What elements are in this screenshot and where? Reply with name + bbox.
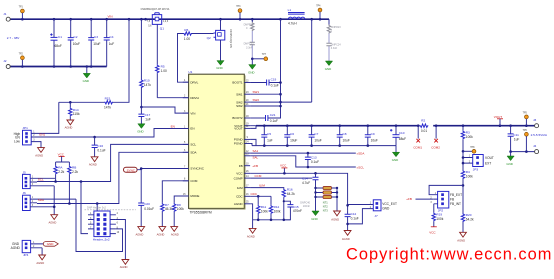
wire PGND rail (252, 145, 396, 147)
capacitor C8 (337, 126, 350, 146)
connector Header 5x2 (85, 206, 136, 241)
wire VOUT rail (256, 125, 535, 127)
svg-text:SAL: SAL (253, 156, 259, 160)
svg-text:J5: J5 (23, 170, 27, 174)
resistor R21 DNP snubber SW1 (244, 19, 254, 31)
capacitor C9 (365, 126, 378, 146)
pin stubs U1 left (183, 82, 189, 196)
svg-text:R4: R4 (466, 170, 470, 174)
pin numbers U1 right (246, 80, 249, 203)
resistor R4 feedback bottom (461, 170, 473, 213)
svg-text:COM: COM (190, 179, 198, 183)
ground SW2 snubber (325, 61, 333, 71)
ground AGND R8 (171, 227, 179, 237)
capacitor C24 DNP snubber SW2 (326, 34, 341, 62)
power label VCC pullups (56, 152, 70, 165)
pin names U1 left (190, 80, 204, 198)
capacitor C4 (104, 19, 115, 66)
svg-text:1uF: 1uF (514, 137, 520, 141)
node SW1 snubber junction (251, 58, 254, 61)
wire SW1 pin row (250, 93, 280, 95)
op-amp U1 main IC body (188, 70, 245, 214)
wire SW2b pin row (250, 105, 280, 107)
wire FB to JP2 (429, 185, 463, 194)
net tie NT1 (314, 186, 338, 211)
inductor L1 (288, 8, 305, 25)
wire divider to JP1 pin1 (37, 102, 59, 133)
ground C11 (506, 152, 514, 166)
capacitor C6 (284, 126, 297, 146)
svg-text:DNPC24: DNPC24 (331, 43, 341, 46)
svg-text:J3: J3 (533, 118, 537, 122)
net flag SYNC oval (124, 167, 138, 172)
ground AGND C20 (136, 227, 145, 237)
svg-text:J2: J2 (3, 59, 7, 63)
ground C17 (137, 124, 145, 134)
capacitor C14 comp (250, 172, 318, 211)
wire Q2 drain (220, 19, 222, 30)
svg-text:C17: C17 (145, 113, 151, 117)
svg-text:64.2k: 64.2k (287, 192, 295, 196)
svg-text:JP3: JP3 (473, 167, 479, 171)
capacitor C13 (305, 152, 319, 169)
svg-text:DRVL: DRVL (190, 80, 198, 84)
svg-text:TP3: TP3 (236, 6, 241, 8)
power label VCC row (280, 163, 287, 174)
svg-text:100nF: 100nF (303, 205, 311, 208)
svg-text:147k: 147k (104, 106, 111, 110)
svg-text:VIN: VIN (108, 15, 113, 19)
svg-text:2.5-5.5V/2A: 2.5-5.5V/2A (531, 133, 548, 137)
power label VOUT (494, 115, 503, 126)
svg-text:R3: R3 (466, 130, 470, 134)
svg-text:GND: GND (137, 130, 143, 134)
svg-text:C19: C19 (271, 78, 277, 82)
node R14 tap (69, 101, 72, 104)
wire AGND pin rail (250, 204, 290, 229)
svg-text:NT2: NT2 (323, 204, 328, 208)
svg-text:2.2k: 2.2k (58, 170, 64, 174)
svg-text:TP4: TP4 (316, 6, 321, 8)
wire SW2 vertical (311, 19, 313, 102)
svg-text:GND: GND (248, 70, 254, 74)
svg-text:10uF: 10uF (343, 138, 350, 142)
svg-text:Copyright:www.eccn.com: Copyright:www.eccn.com (346, 246, 552, 264)
wire EN net (37, 129, 189, 138)
svg-text:TP7: TP7 (262, 54, 267, 56)
svg-text:C8: C8 (343, 132, 347, 136)
wire VCC row (250, 173, 348, 210)
svg-text:VCC: VCC (280, 163, 287, 167)
svg-text:NT3: NT3 (323, 208, 328, 212)
svg-text:AGND: AGND (342, 237, 350, 241)
svg-text:C13: C13 (311, 155, 317, 159)
svg-text:2.7 - 38V: 2.7 - 38V (7, 36, 20, 40)
node VIN rail junctions (21, 18, 321, 21)
svg-text:0.1uF: 0.1uF (270, 119, 278, 123)
svg-text:«SDA: «SDA (357, 151, 365, 155)
svg-text:100k: 100k (436, 217, 443, 221)
svg-text:AGND: AGND (11, 246, 21, 250)
pin names U1 right (232, 81, 243, 206)
svg-text:FB: FB (239, 164, 243, 168)
svg-text:AGND: AGND (49, 220, 57, 224)
svg-text:JP4: JP4 (23, 253, 29, 257)
connector JP3 vout ext (462, 151, 494, 171)
svg-text:«SCL: «SCL (357, 165, 365, 169)
svg-text:CCM: CCM (255, 174, 262, 178)
svg-text:J1: J1 (3, 12, 7, 16)
svg-text:R6: R6 (184, 28, 188, 32)
svg-text:CDC: CDC (236, 195, 243, 199)
svg-text:SYNC/NC: SYNC/NC (190, 167, 204, 171)
ground AGND header (120, 260, 129, 270)
svg-text:SDA: SDA (190, 151, 196, 155)
svg-text:0.01: 0.01 (421, 129, 427, 133)
svg-text:3.3nF: 3.3nF (246, 47, 253, 50)
node SW1 taps (279, 81, 282, 107)
power label VCC R19 (429, 227, 437, 235)
node J6 pin3 tie (53, 206, 56, 209)
svg-text:R5: R5 (161, 65, 165, 69)
svg-text:TP5: TP5 (523, 113, 528, 115)
capacitor C15 (283, 200, 302, 220)
connector J5 (23, 170, 56, 188)
wire SW2 pin row (250, 101, 312, 103)
node SCL junctions (54, 180, 82, 183)
svg-text:0.01uF: 0.01uF (144, 207, 154, 211)
node C12 taps (346, 204, 349, 225)
wire VOUT pins merge (250, 126, 256, 129)
ground Q2 source (216, 40, 224, 70)
capacitor C1 (50, 19, 62, 66)
svg-text:68uF: 68uF (399, 137, 406, 141)
svg-text:R20: R20 (466, 213, 472, 217)
svg-text:C7: C7 (314, 132, 318, 136)
svg-text:BOOT1: BOOT1 (232, 81, 243, 85)
svg-text:AGND: AGND (247, 235, 255, 239)
svg-text:COM2: COM2 (431, 145, 440, 149)
wire SA1 row (250, 152, 356, 154)
svg-text:R14: R14 (73, 108, 79, 112)
svg-text:CDC: CDC (251, 192, 258, 196)
capacitor C2 (68, 19, 80, 66)
svg-text:R11: R11 (261, 205, 267, 209)
connector JP2 fb select (430, 191, 462, 212)
svg-text:VCC: VCC (429, 230, 436, 234)
resistor R15 (59, 96, 113, 109)
ground C10 (392, 146, 400, 162)
resistor RB pullup SDA (68, 165, 79, 203)
svg-text:SDA: SDA (38, 198, 44, 202)
svg-text:10uF: 10uF (73, 42, 80, 46)
svg-text:100k: 100k (261, 209, 268, 213)
wire SYNC net (137, 169, 188, 170)
svg-text:100k: 100k (177, 207, 184, 211)
svg-text:«FB: «FB (406, 197, 412, 201)
svg-text:C20: C20 (144, 202, 150, 206)
wire SAL row jog (250, 156, 356, 167)
svg-text:AGND: AGND (120, 265, 128, 269)
ground AGND net tie (331, 211, 340, 221)
svg-text:1uF: 1uF (109, 42, 115, 46)
svg-text:SCL: SCL (38, 177, 44, 181)
svg-text:NT1: NT1 (323, 200, 328, 204)
net label FB (406, 197, 433, 201)
wire EN divider riser (113, 19, 129, 102)
wire VIN feed to IC (141, 107, 188, 113)
svg-text:3.3nF: 3.3nF (331, 47, 338, 50)
wire header right to ground (116, 220, 126, 260)
resistor R11 (257, 195, 269, 220)
transistor Q2 (207, 30, 225, 40)
svg-text:EN1: EN1 (39, 133, 45, 137)
svg-text:100k: 100k (466, 135, 473, 139)
svg-text:100k: 100k (274, 209, 281, 213)
svg-text:J6: J6 (23, 191, 27, 195)
node FB mid (462, 150, 465, 153)
svg-text:MODE: MODE (190, 194, 199, 198)
resistor R8 (173, 196, 189, 227)
wire SDA net rail (37, 152, 189, 203)
capacitor C22 DNP snubber SW1 (244, 31, 255, 59)
svg-text:C4: C4 (110, 35, 114, 39)
svg-text:100k: 100k (466, 175, 473, 179)
resistor R14 (69, 102, 80, 120)
wire VIN top rail (10, 18, 329, 20)
svg-text:SW2: SW2 (236, 104, 243, 108)
ground AGND R7 (157, 227, 166, 237)
capacitor C17 (138, 107, 150, 124)
svg-text:FB_EXT: FB_EXT (450, 193, 462, 197)
svg-text:2.2k: 2.2k (72, 170, 78, 174)
connector J7 vcc ext (348, 200, 397, 224)
wire DRVL riser (178, 34, 189, 83)
svg-text:R19: R19 (436, 212, 442, 216)
connector JP4 (11, 240, 44, 257)
ground AGND JP1 pin3 (35, 142, 44, 158)
wire PGND pins merge (250, 139, 256, 145)
svg-text:AGND: AGND (234, 202, 244, 206)
svg-text:C6: C6 (290, 132, 294, 136)
svg-text:10uF: 10uF (290, 138, 297, 142)
connector JP1 (14, 126, 46, 145)
resistor R16 ilim (250, 187, 295, 219)
svg-text:VOUT: VOUT (234, 127, 243, 131)
node AGND rail junctions (257, 219, 285, 222)
capacitor C40 DNP label (300, 202, 310, 209)
svg-text:COM1: COM1 (413, 145, 422, 149)
svg-text:EN: EN (171, 124, 175, 128)
svg-text:1uF: 1uF (267, 138, 273, 142)
svg-text:GND: GND (216, 66, 222, 70)
resistor R2 sense (419, 119, 428, 133)
svg-text:0.1uF: 0.1uF (271, 83, 279, 87)
ground input (83, 67, 91, 83)
testpoint TP4 (316, 6, 322, 20)
svg-text:1,2,3: 1,2,3 (163, 21, 169, 23)
svg-text:C21: C21 (270, 113, 276, 117)
ground AGND R20 (457, 232, 466, 242)
svg-text:L1: L1 (288, 8, 292, 12)
ground AGND J5 J6 (49, 215, 58, 225)
svg-text:DNPC40: DNPC40 (300, 202, 310, 205)
svg-text:EXT: EXT (485, 161, 491, 165)
svg-text:Q1: Q1 (160, 27, 164, 31)
svg-text:4.7uH: 4.7uH (288, 21, 297, 25)
svg-text:FB: FB (450, 197, 454, 201)
svg-text:0.1uF: 0.1uF (311, 160, 319, 164)
resistor R3 feedback top (461, 126, 473, 152)
svg-text:68uF: 68uF (55, 44, 62, 48)
capacitor C3 (88, 19, 100, 66)
svg-text:AGND: AGND (89, 163, 97, 167)
svg-text:DNPR23: DNPR23 (331, 26, 341, 29)
svg-text:Q2: Q2 (207, 36, 211, 40)
connector J4 output return (533, 144, 539, 154)
svg-text:C12: C12 (351, 212, 357, 216)
testpoint TP5 (523, 113, 529, 126)
connector J1 (3, 12, 10, 21)
svg-text:GND: GND (382, 207, 390, 211)
node VOUT rail junctions (263, 124, 528, 127)
ground AGND C12 (342, 231, 351, 242)
svg-text:C16: C16 (97, 144, 103, 148)
svg-text:SA1: SA1 (253, 149, 259, 153)
svg-text:J4: J4 (533, 144, 537, 148)
svg-text:AGND: AGND (457, 239, 465, 243)
node VIN filter junction (140, 106, 143, 109)
svg-text:GND: GND (392, 158, 398, 162)
connector J2 (3, 59, 10, 68)
wire return bottom rail (10, 66, 107, 68)
testpoint TP1 (19, 7, 25, 20)
svg-text:VCC: VCC (58, 152, 65, 156)
wire CDC row (250, 195, 271, 197)
svg-text:115k: 115k (73, 112, 80, 116)
svg-text:BOOT2: BOOT2 (232, 116, 243, 120)
svg-text:SCL: SCL (190, 143, 196, 147)
svg-text:R2: R2 (421, 119, 425, 123)
resistor R10 (140, 19, 152, 107)
svg-text:J7: J7 (374, 214, 378, 218)
svg-text:«FB: «FB (253, 164, 259, 168)
connector J6 (23, 191, 77, 210)
wire SW1 vertical (268, 19, 281, 118)
svg-text:AGND: AGND (36, 261, 44, 265)
node C16 tap (93, 136, 96, 139)
svg-text:AGND: AGND (157, 232, 165, 236)
svg-text:C9: C9 (371, 132, 375, 136)
resistor R7 (161, 181, 189, 227)
capacitor C5 (261, 126, 272, 146)
svg-text:CSD25310Q2 20V: CSD25310Q2 20V (229, 29, 231, 48)
testpoint TP2 (19, 54, 25, 67)
svg-text:GND: GND (83, 79, 89, 83)
svg-text:1uF: 1uF (145, 118, 151, 122)
svg-text:0.1uF: 0.1uF (97, 149, 105, 153)
svg-text:C10: C10 (399, 131, 405, 135)
svg-text:Low: Low (14, 140, 21, 144)
ground SW1 snubber (248, 59, 256, 75)
svg-text:GND: GND (325, 67, 331, 71)
resistor R6 (183, 28, 214, 41)
probe point COM2 (431, 126, 440, 150)
svg-text:C14: C14 (302, 176, 308, 180)
svg-text:PGND: PGND (234, 142, 244, 146)
svg-text:JP1: JP1 (23, 126, 29, 130)
wire SCL net rail (37, 144, 189, 181)
svg-text:10uF: 10uF (314, 138, 321, 142)
svg-text:R7: R7 (165, 203, 169, 207)
capacitor C12 (345, 211, 359, 231)
svg-text:CSD25310Q2 P-CH 20V 5A: CSD25310Q2 P-CH 20V 5A (141, 8, 170, 11)
svg-text:Header_5x2: Header_5x2 (93, 238, 110, 242)
svg-text:DNPR21: DNPR21 (244, 24, 254, 27)
svg-text:VCC: VCC (236, 172, 243, 176)
wire DRVH to IC (157, 97, 188, 99)
svg-text:VIN: VIN (190, 111, 195, 115)
capacitor C21 boot2 (250, 113, 278, 123)
svg-text:R12: R12 (274, 205, 280, 209)
svg-text:470nF: 470nF (293, 209, 302, 213)
svg-text:64.2k: 64.2k (466, 218, 474, 222)
testpoint TP8 (463, 147, 476, 153)
svg-text:AGND: AGND (171, 232, 179, 236)
pin numbers U1 left (183, 80, 186, 196)
svg-text:FB_INT: FB_INT (450, 202, 461, 206)
svg-text:ILIM: ILIM (259, 183, 265, 187)
resistor R19 fb int pullup (432, 204, 444, 227)
svg-text:TPS55288RYM: TPS55288RYM (190, 210, 212, 214)
node return rail junctions (21, 65, 92, 68)
svg-text:C2: C2 (74, 35, 78, 39)
svg-text:TP8: TP8 (470, 147, 475, 149)
wire I2C ground drop (53, 186, 55, 215)
ground AGND U1 (247, 228, 256, 238)
label net ties (323, 200, 328, 212)
svg-text:SW1: SW1 (236, 92, 243, 96)
capacitor C10 output bulk (390, 126, 406, 146)
node SYNC tap (140, 167, 143, 170)
wire output return (511, 151, 535, 153)
svg-text:R15: R15 (105, 96, 111, 100)
svg-text:R8: R8 (177, 203, 181, 207)
svg-text:TP2: TP2 (19, 54, 24, 56)
svg-text:10uF: 10uF (93, 42, 100, 46)
svg-text:TP1: TP1 (19, 7, 24, 9)
svg-text:GND: GND (311, 217, 317, 221)
node PGND rail junctions (263, 144, 369, 147)
resistor R5 (156, 24, 167, 97)
wire header left feed (81, 182, 97, 234)
svg-text:GND: GND (47, 242, 55, 246)
svg-text:C1: C1 (58, 35, 62, 39)
svg-text:DNPC22: DNPC22 (244, 42, 254, 45)
svg-text:GND: GND (506, 162, 512, 166)
node SDA junctions (68, 202, 98, 205)
pin stubs U1 right (244, 83, 250, 204)
net flag GND oval (43, 242, 58, 247)
ground AGND R14 (65, 120, 74, 130)
svg-text:AGND: AGND (331, 217, 339, 221)
ground AGND JP4 (36, 248, 45, 265)
svg-text:TP6: TP6 (523, 130, 528, 132)
transistor Q1 (147, 13, 169, 31)
svg-text:SW2: SW2 (253, 98, 260, 102)
net tie NT2 (314, 191, 338, 194)
svg-text:SW1: SW1 (253, 90, 260, 94)
